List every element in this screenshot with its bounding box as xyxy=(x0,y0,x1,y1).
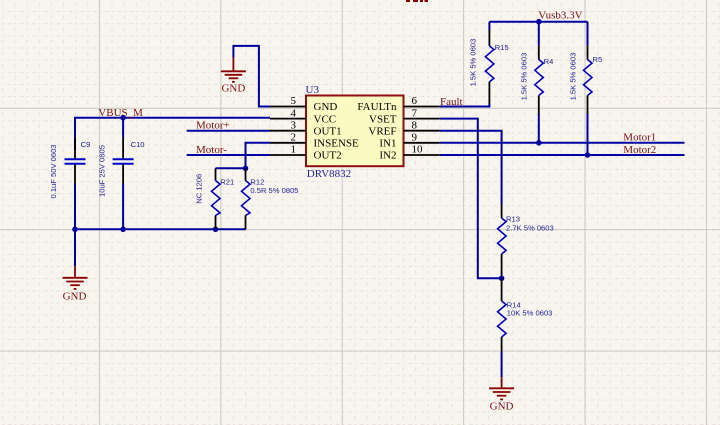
svg-text:C9: C9 xyxy=(81,140,91,149)
svg-text:10: 10 xyxy=(412,144,424,156)
svg-text:VREF: VREF xyxy=(368,125,396,137)
ground (bottom right) xyxy=(489,377,514,399)
svg-text:1.5K 5% 0603: 1.5K 5% 0603 xyxy=(520,53,529,101)
wire Motor2 net xyxy=(440,154,685,156)
ground (left) xyxy=(63,266,88,289)
pin 8 xyxy=(404,130,440,132)
svg-text:Motor+: Motor+ xyxy=(196,120,230,132)
wire C10 bottom xyxy=(122,184,124,230)
svg-text:INSENSE: INSENSE xyxy=(314,138,360,150)
svg-text:Vusb3.3V: Vusb3.3V xyxy=(538,10,582,22)
pin 9 xyxy=(404,142,440,144)
svg-text:10K 5% 0603: 10K 5% 0603 xyxy=(507,309,553,318)
pin 10 xyxy=(404,154,440,156)
cut-off red text fragment at top edge xyxy=(406,0,428,2)
svg-text:R4: R4 xyxy=(544,57,554,66)
junction C10 bottom xyxy=(120,227,126,233)
svg-text:0.1uF 50V 0603: 0.1uF 50V 0603 xyxy=(49,144,58,198)
svg-text:2.7K 5% 0603: 2.7K 5% 0603 xyxy=(506,224,554,233)
wire R5 top xyxy=(587,22,589,46)
junction C10 top xyxy=(120,115,126,121)
junction VSET/R13/R14 xyxy=(499,276,505,282)
wire VSET net xyxy=(440,119,502,279)
ground (top) xyxy=(221,58,246,82)
wire Fault net xyxy=(440,104,490,107)
svg-text:Motor2: Motor2 xyxy=(623,144,656,156)
resistor R14 xyxy=(498,278,553,351)
svg-text:8: 8 xyxy=(412,119,418,131)
wire C9 bottom xyxy=(74,184,76,230)
svg-text:1.5K 5% 0603: 1.5K 5% 0603 xyxy=(469,39,478,87)
wire GND net (top, pin 5 to ground) xyxy=(233,46,270,107)
svg-text:Motor-: Motor- xyxy=(196,144,227,156)
svg-text:4: 4 xyxy=(291,107,297,119)
pin 3 xyxy=(270,130,306,132)
svg-text:Fault: Fault xyxy=(440,96,463,108)
resistor R15 xyxy=(469,30,509,104)
junction INSENSE node xyxy=(243,166,249,172)
svg-text:U3: U3 xyxy=(306,84,320,96)
resistor R4 xyxy=(520,46,554,114)
wire C10 top drop xyxy=(122,118,124,138)
svg-text:6: 6 xyxy=(412,95,418,107)
svg-text:1.5K 5% 0603: 1.5K 5% 0603 xyxy=(569,53,578,101)
wire Motor+ net xyxy=(187,130,270,132)
svg-text:OUT1: OUT1 xyxy=(314,125,342,137)
resistor R13 xyxy=(498,204,554,278)
pin 6 xyxy=(404,106,440,108)
svg-text:NC 1206: NC 1206 xyxy=(194,174,203,204)
junction Vusb rail xyxy=(536,19,542,25)
svg-text:1: 1 xyxy=(291,144,297,156)
wire R14 to ground xyxy=(501,352,503,378)
svg-text:GND: GND xyxy=(490,400,514,412)
resistor R5 xyxy=(569,46,603,114)
svg-text:FAULTn: FAULTn xyxy=(357,101,397,113)
svg-text:C10: C10 xyxy=(131,140,145,149)
svg-text:GND: GND xyxy=(314,101,338,113)
resistor R21 xyxy=(194,168,234,229)
resistor R12 xyxy=(242,168,299,229)
svg-text:OUT2: OUT2 xyxy=(314,150,342,162)
pin 2 xyxy=(270,142,306,144)
svg-text:GND: GND xyxy=(221,83,245,95)
svg-text:VCC: VCC xyxy=(314,113,337,125)
wire R15 top xyxy=(488,22,490,30)
wire R5 bottom xyxy=(587,114,589,156)
svg-text:VSET: VSET xyxy=(369,113,397,125)
svg-text:R21: R21 xyxy=(220,178,234,187)
pin 5 xyxy=(270,106,306,108)
svg-text:3: 3 xyxy=(291,119,297,131)
pin 7 xyxy=(404,118,440,120)
junction bottom rail left xyxy=(72,227,78,233)
svg-text:GND: GND xyxy=(63,291,87,303)
junction R4 bottom xyxy=(536,140,542,146)
wire Motor- net xyxy=(187,154,270,156)
svg-text:IN1: IN1 xyxy=(379,138,396,150)
svg-text:R5: R5 xyxy=(593,55,603,64)
wire VREF net xyxy=(440,131,502,204)
pin 1 xyxy=(270,154,306,156)
svg-text:10uF 25V 0805: 10uF 25V 0805 xyxy=(97,145,106,197)
junction R21 bottom xyxy=(213,227,219,233)
wire GND drop (left) xyxy=(74,229,76,266)
capacitor C9 xyxy=(49,138,90,199)
junction R5 bottom xyxy=(585,152,591,158)
svg-text:Motor1: Motor1 xyxy=(623,132,656,144)
svg-text:5: 5 xyxy=(291,95,297,107)
svg-text:7: 7 xyxy=(412,107,418,119)
svg-text:0.5R 5% 0805: 0.5R 5% 0805 xyxy=(250,186,298,195)
svg-text:IN2: IN2 xyxy=(379,150,396,162)
wire bottom rail xyxy=(75,228,246,230)
wire Vusb3.3V rail xyxy=(489,21,587,23)
wire INSENSE net xyxy=(216,143,271,169)
svg-text:DRV8832: DRV8832 xyxy=(307,168,351,180)
wire R4 top xyxy=(538,22,540,46)
wire Motor1 net xyxy=(440,142,685,144)
wire VBUS_M rail xyxy=(75,118,270,150)
pin 4 xyxy=(270,118,306,120)
capacitor C10 xyxy=(97,138,144,197)
svg-text:R13: R13 xyxy=(506,215,520,224)
svg-text:2: 2 xyxy=(291,132,297,144)
svg-text:R15: R15 xyxy=(495,43,509,52)
IC U3 DRV8832 xyxy=(270,84,440,180)
svg-text:9: 9 xyxy=(412,132,418,144)
wire R4 bottom xyxy=(538,114,540,143)
